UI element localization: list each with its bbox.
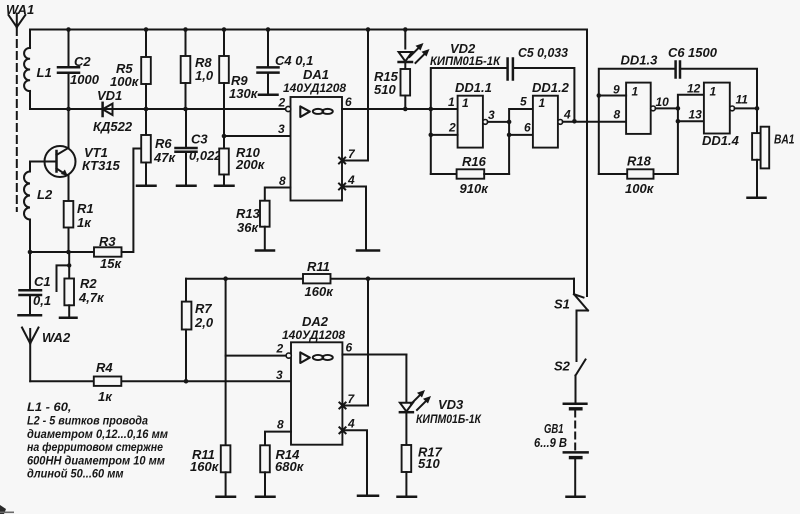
svg-text:R4: R4 bbox=[96, 360, 113, 375]
pin 4 output DD1.2 to DD1.3 pin 8 bbox=[558, 108, 626, 125]
resistor R14 bbox=[256, 445, 305, 497]
svg-text:VD3: VD3 bbox=[438, 397, 464, 412]
svg-text:9: 9 bbox=[613, 83, 620, 97]
svg-text:15к: 15к bbox=[100, 256, 122, 271]
pin 8 lead DA2 to R14 bbox=[265, 432, 291, 446]
svg-text:5: 5 bbox=[520, 95, 527, 109]
svg-text:1: 1 bbox=[448, 95, 455, 109]
battery GB1 bbox=[534, 404, 588, 497]
gate DD1.4 bbox=[702, 83, 740, 148]
svg-text:1000: 1000 bbox=[70, 72, 100, 87]
svg-text:1к: 1к bbox=[77, 215, 92, 230]
capacitor C4 bbox=[258, 27, 314, 95]
capacitor C3 bbox=[176, 109, 223, 186]
switch S2 bbox=[554, 359, 586, 403]
svg-text:680к: 680к bbox=[275, 459, 305, 474]
wire C6 feedback top line bbox=[599, 69, 757, 174]
inductor L1 bbox=[24, 30, 52, 110]
svg-text:BA1: BA1 bbox=[774, 132, 795, 147]
svg-text:510: 510 bbox=[418, 456, 440, 471]
pin 2 terminal DA1 bbox=[286, 106, 291, 111]
capacitor C5 bbox=[508, 45, 577, 124]
svg-text:47к: 47к bbox=[153, 150, 176, 165]
pin 6 output DA2 bbox=[342, 354, 406, 356]
svg-text:R11: R11 bbox=[307, 259, 330, 274]
svg-text:36к: 36к bbox=[237, 220, 259, 235]
svg-text:GB1: GB1 bbox=[544, 421, 564, 436]
svg-text:130к: 130к bbox=[229, 86, 259, 101]
gate DD1.3 bbox=[621, 53, 659, 134]
wire C5 input branch bbox=[431, 68, 507, 174]
svg-text:L1: L1 bbox=[37, 65, 52, 80]
svg-text:DD1.2: DD1.2 bbox=[532, 80, 570, 95]
resistor R8 bbox=[181, 27, 214, 111]
svg-text:6: 6 bbox=[524, 121, 531, 135]
svg-text:КТ315: КТ315 bbox=[82, 158, 121, 173]
gate DD1.2 bbox=[532, 80, 570, 148]
pin 11 output DD1.4 bbox=[730, 93, 760, 111]
wire base line to R3 bbox=[30, 251, 94, 253]
svg-text:4: 4 bbox=[347, 173, 355, 187]
svg-text:3: 3 bbox=[278, 122, 285, 136]
svg-text:1: 1 bbox=[462, 96, 469, 110]
pin 7 lead DA1 to V+ bbox=[339, 27, 370, 163]
capacitor C2 bbox=[58, 27, 100, 111]
svg-text:910к: 910к bbox=[460, 181, 490, 196]
capacitor C6 bbox=[668, 45, 718, 78]
pin 2 lead DA2 bbox=[226, 279, 292, 446]
trimmer resistor R2 bbox=[57, 252, 106, 318]
wire DA2 pin 3 line bbox=[30, 380, 290, 382]
pin 6 output line DA1 bbox=[342, 108, 457, 110]
svg-text:510: 510 bbox=[374, 82, 396, 97]
resistor R11 bbox=[303, 259, 334, 299]
svg-text:6: 6 bbox=[345, 95, 352, 109]
svg-text:12: 12 bbox=[687, 82, 701, 96]
svg-text:на ферритовом стержне: на ферритовом стержне bbox=[27, 442, 164, 454]
antenna WA2 bbox=[22, 328, 71, 382]
op-amp DA1 bbox=[283, 67, 346, 201]
svg-text:4: 4 bbox=[563, 108, 571, 122]
svg-text:R13: R13 bbox=[236, 206, 261, 221]
svg-text:DD1.1: DD1.1 bbox=[455, 80, 492, 95]
svg-text:100к: 100к bbox=[110, 74, 140, 89]
pin 2 lead DD1.1 bbox=[431, 134, 458, 136]
resistor R18 bbox=[599, 154, 677, 197]
transducer BA1 bbox=[748, 108, 795, 198]
svg-text:C1: C1 bbox=[34, 274, 51, 289]
svg-text:длиной 50...60 мм: длиной 50...60 мм bbox=[27, 469, 124, 481]
svg-text:L2: L2 bbox=[37, 187, 53, 202]
svg-text:диаметром 0,12...0,16 мм: диаметром 0,12...0,16 мм bbox=[27, 429, 168, 441]
resistor R13 bbox=[236, 201, 274, 251]
svg-text:C3: C3 bbox=[191, 132, 208, 147]
svg-text:КД522: КД522 bbox=[93, 119, 133, 134]
pin 10 output DD1.3 bbox=[651, 82, 704, 175]
svg-text:1,0: 1,0 bbox=[195, 68, 214, 83]
LED VD2 bbox=[399, 27, 502, 68]
wire oscillator feed line with R11 bbox=[186, 278, 574, 280]
svg-text:WA1: WA1 bbox=[6, 2, 34, 17]
antenna WA1 bbox=[6, 2, 34, 211]
svg-text:DD1.3: DD1.3 bbox=[621, 53, 659, 68]
svg-text:10: 10 bbox=[656, 95, 670, 109]
svg-text:R16: R16 bbox=[462, 154, 487, 169]
transistor VT1 bbox=[30, 109, 121, 201]
svg-text:R3: R3 bbox=[99, 234, 116, 249]
svg-text:КИПМ01Б-1К: КИПМ01Б-1К bbox=[416, 412, 482, 426]
resistor R5 bbox=[110, 27, 151, 111]
svg-text:0,1: 0,1 bbox=[33, 293, 51, 308]
svg-text:100к: 100к bbox=[625, 181, 655, 196]
svg-text:2: 2 bbox=[448, 121, 456, 135]
wire top supply rail bbox=[30, 29, 587, 31]
gate DD1.1 bbox=[455, 80, 492, 148]
svg-text:L2 - 5 витков провода: L2 - 5 витков провода bbox=[27, 416, 149, 428]
svg-text:200к: 200к bbox=[235, 157, 266, 172]
svg-text:3: 3 bbox=[276, 368, 283, 382]
switch S1 bbox=[554, 279, 588, 361]
inductor L2 bbox=[24, 162, 53, 253]
resistor R4 bbox=[94, 360, 122, 404]
note text block bbox=[27, 402, 168, 481]
svg-text:8: 8 bbox=[277, 418, 284, 432]
wire DA1 pin 3 line bbox=[224, 135, 291, 137]
svg-text:160к: 160к bbox=[305, 284, 335, 299]
svg-text:11: 11 bbox=[736, 93, 749, 107]
svg-text:DD1.4: DD1.4 bbox=[702, 133, 740, 148]
svg-text:140УД1208: 140УД1208 bbox=[282, 328, 345, 342]
svg-text:160к: 160к bbox=[190, 459, 220, 474]
pin 8 lead DA1 to R13 bbox=[265, 188, 291, 201]
svg-text:6...9 В: 6...9 В bbox=[534, 435, 567, 450]
svg-text:1к: 1к bbox=[98, 389, 113, 404]
svg-text:R18: R18 bbox=[627, 154, 652, 169]
svg-text:C2: C2 bbox=[74, 54, 91, 69]
wire supply drop to S1 bbox=[586, 30, 588, 297]
svg-text:R6: R6 bbox=[155, 136, 172, 151]
svg-text:C5 0,033: C5 0,033 bbox=[518, 45, 569, 60]
svg-text:3: 3 bbox=[488, 108, 495, 122]
wire detector rail to DA1 pin 2 bbox=[30, 108, 287, 110]
svg-text:2: 2 bbox=[276, 342, 284, 356]
svg-text:2: 2 bbox=[278, 96, 286, 110]
svg-text:R1: R1 bbox=[77, 201, 94, 216]
svg-text:L1 - 60,: L1 - 60, bbox=[27, 402, 72, 414]
svg-text:8: 8 bbox=[279, 174, 286, 188]
resistor R7 bbox=[182, 279, 214, 384]
diode VD1 bbox=[93, 88, 133, 134]
svg-text:C4 0,1: C4 0,1 bbox=[275, 53, 313, 68]
svg-text:2,0: 2,0 bbox=[194, 315, 214, 330]
svg-text:R7: R7 bbox=[195, 301, 212, 316]
trimmer resistor R6 bbox=[137, 109, 176, 186]
svg-text:S2: S2 bbox=[554, 359, 571, 374]
resistor R9 bbox=[219, 27, 258, 138]
pin 7 lead DA2 bbox=[339, 279, 368, 409]
op-amp DA2 bbox=[282, 314, 345, 445]
svg-text:1: 1 bbox=[710, 84, 717, 98]
scan artifact bottom-left corner bbox=[0, 505, 6, 514]
pin 3 output DD1.1 bbox=[483, 108, 512, 124]
svg-text:WA2: WA2 bbox=[42, 330, 71, 345]
resistor R3 bbox=[94, 149, 141, 272]
svg-text:13: 13 bbox=[689, 108, 703, 122]
svg-text:1500: 1500 bbox=[688, 45, 718, 60]
resistor R10 bbox=[215, 136, 266, 186]
resistor R16 bbox=[431, 154, 509, 196]
svg-text:VD1: VD1 bbox=[97, 88, 122, 103]
resistor R15 bbox=[374, 62, 410, 111]
capacitor C1 bbox=[19, 252, 52, 315]
pin 4 lead DA2 to ground bbox=[339, 417, 378, 496]
resistor R17 bbox=[398, 412, 443, 497]
svg-text:1: 1 bbox=[632, 84, 639, 98]
svg-text:0,022: 0,022 bbox=[189, 148, 222, 163]
svg-text:600НН диаметром 10 мм: 600НН диаметром 10 мм bbox=[27, 455, 165, 467]
svg-text:R2: R2 bbox=[80, 276, 97, 291]
LED VD3 bbox=[400, 355, 483, 427]
svg-text:DA2: DA2 bbox=[302, 314, 329, 329]
pin 9 lead DD1.3 bbox=[599, 95, 626, 97]
svg-text:4,7к: 4,7к bbox=[78, 290, 105, 305]
resistor R1 bbox=[64, 201, 94, 252]
pin 4 lead DA1 to ground bbox=[339, 173, 379, 251]
svg-text:S1: S1 bbox=[554, 297, 570, 312]
wire coupling node to DD1.2 inputs bbox=[507, 109, 533, 174]
svg-text:DA1: DA1 bbox=[303, 67, 329, 82]
svg-text:4: 4 bbox=[347, 417, 355, 431]
svg-text:6: 6 bbox=[346, 341, 353, 355]
svg-text:C6: C6 bbox=[668, 45, 685, 60]
resistor R11 bottom bbox=[190, 445, 235, 497]
svg-text:140УД1208: 140УД1208 bbox=[283, 81, 346, 95]
svg-text:8: 8 bbox=[614, 108, 621, 122]
svg-text:1: 1 bbox=[539, 96, 546, 110]
svg-text:КИПМ01Б-1К: КИПМ01Б-1К bbox=[430, 54, 502, 68]
